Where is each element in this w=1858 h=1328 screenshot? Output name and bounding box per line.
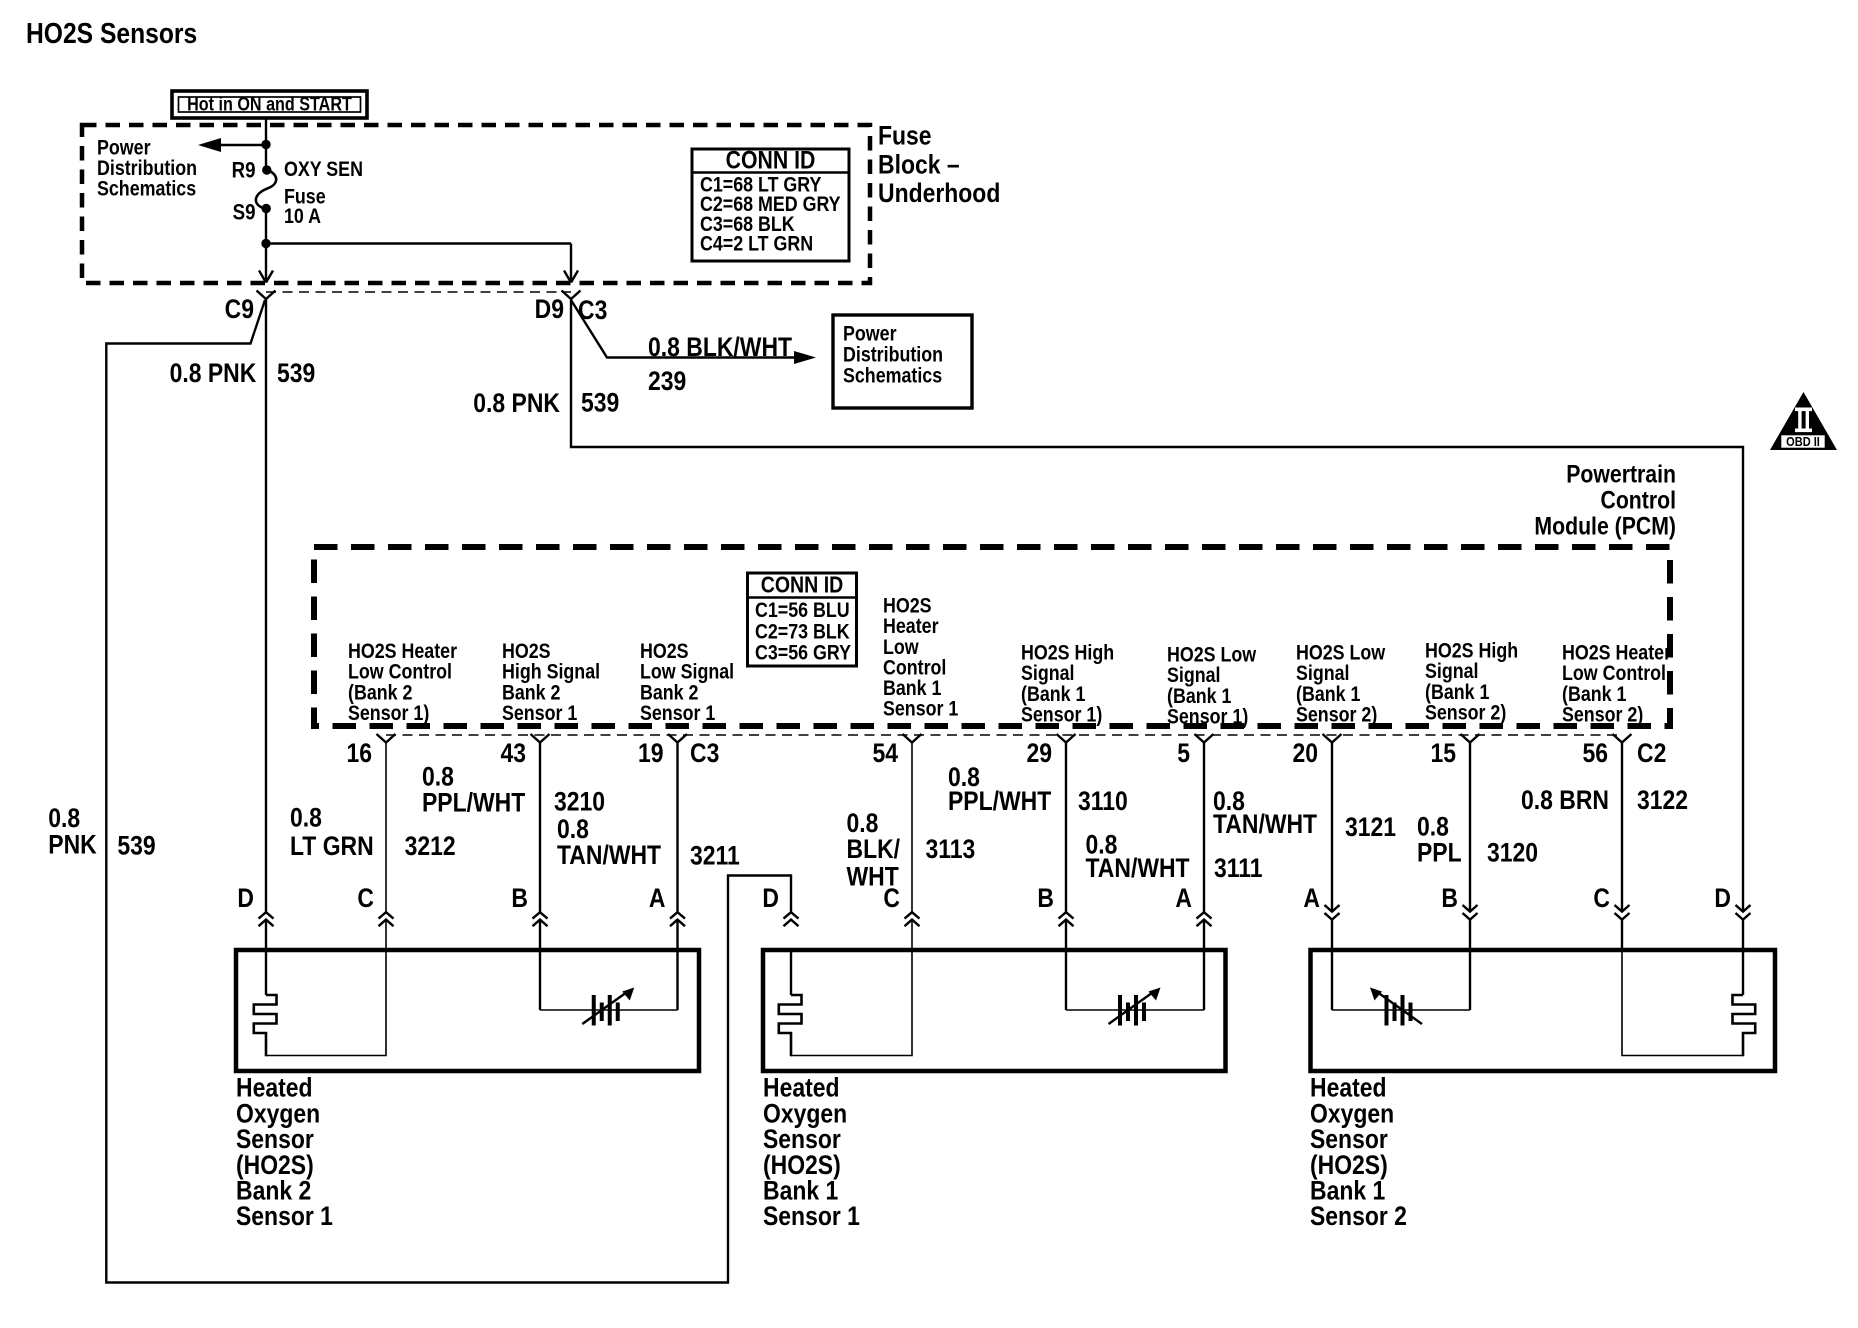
PCM connector dashed line: [386, 734, 1622, 736]
svg-text:539: 539: [581, 388, 619, 418]
wire C9 down to HO2S B2S1 pin D: [265, 299, 267, 912]
HO2S Bank2 Sensor1 box: [236, 950, 699, 1071]
PCM pin 15 connector: [1461, 734, 1480, 743]
svg-text:Schematics: Schematics: [97, 177, 196, 201]
arrow to power distribution schematics: [216, 144, 266, 147]
svg-text:0.8 PNK: 0.8 PNK: [473, 388, 560, 418]
wire PNK 539 from C3 down, right, to HO2S B1S2 pin D: [571, 299, 1743, 912]
svg-text:3211: 3211: [690, 841, 740, 871]
PCM pin 56 connector: [1613, 734, 1632, 743]
wire from pin 29: [1065, 743, 1067, 913]
svg-text:5: 5: [1177, 738, 1190, 768]
connector D9: [562, 291, 581, 300]
PCM pin 19 connector: [668, 734, 687, 743]
wire from pin 16: [385, 743, 387, 913]
wire from pin 56: [1621, 743, 1623, 913]
svg-text:D9: D9: [535, 294, 564, 324]
svg-text:B: B: [1037, 883, 1054, 913]
svg-text:TAN/WHT: TAN/WHT: [1086, 853, 1191, 883]
connector C9: [257, 291, 276, 300]
svg-text:3121: 3121: [1345, 812, 1396, 842]
svg-text:43: 43: [500, 738, 526, 768]
svg-text:R9: R9: [232, 159, 256, 183]
svg-text:0.8 BLK/WHT: 0.8 BLK/WHT: [648, 332, 793, 362]
svg-text:OXY SEN: OXY SEN: [284, 158, 363, 182]
PCM pin 5 connector: [1195, 734, 1214, 743]
svg-text:CONN ID: CONN ID: [726, 146, 816, 174]
svg-text:C3=56 GRY: C3=56 GRY: [755, 641, 851, 665]
svg-text:15: 15: [1430, 738, 1456, 768]
wire D9 slant to power distribution arrow: [571, 300, 800, 358]
svg-text:C9: C9: [225, 294, 254, 324]
svg-text:C1=56 BLU: C1=56 BLU: [755, 599, 850, 623]
svg-text:TAN/WHT: TAN/WHT: [1213, 809, 1318, 839]
svg-text:Control: Control: [1600, 486, 1676, 514]
conn id table (PCM): [748, 573, 857, 666]
svg-text:0.8 PNK: 0.8 PNK: [170, 358, 257, 388]
svg-text:B: B: [1441, 883, 1458, 913]
svg-text:Sensor 2: Sensor 2: [1310, 1201, 1407, 1231]
svg-text:3122: 3122: [1637, 785, 1688, 815]
svg-text:CONN ID: CONN ID: [761, 572, 843, 598]
wire stub down to D9 with arrow: [570, 244, 572, 282]
svg-text:539: 539: [117, 831, 155, 861]
PCM pin 54 connector: [903, 734, 922, 743]
svg-text:D: D: [762, 883, 779, 913]
svg-text:Schematics: Schematics: [843, 364, 942, 388]
svg-text:3210: 3210: [554, 787, 605, 817]
svg-text:54: 54: [872, 738, 898, 768]
svg-text:Sensor 1): Sensor 1): [1167, 705, 1248, 729]
label box: Hot in ON and START: [172, 91, 367, 118]
sensing cell B1S2: [1331, 950, 1333, 1010]
heater element B1S1: [790, 950, 792, 995]
svg-text:TAN/WHT: TAN/WHT: [557, 840, 662, 870]
wire stub down to C9 with arrow: [265, 244, 267, 282]
svg-text:56: 56: [1582, 738, 1608, 768]
node S9: [262, 204, 271, 213]
connector dashed line C9-D9: [266, 291, 571, 293]
inline connectors (chevrons): [259, 912, 274, 918]
svg-text:3212: 3212: [405, 831, 456, 861]
svg-text:B: B: [511, 883, 528, 913]
svg-text:S9: S9: [233, 201, 256, 225]
wire C9 slant to left run, bottom run, and up to B1S1 pin D: [106, 300, 791, 1283]
wire branch to D9: [266, 242, 571, 244]
PCM pin 29 connector: [1057, 734, 1076, 743]
sensing cell B2S1: [539, 950, 541, 1010]
svg-text:A: A: [1175, 883, 1192, 913]
wire from pin 5: [1203, 743, 1205, 913]
power distribution schematics box: [833, 315, 972, 408]
svg-text:Sensor 1: Sensor 1: [763, 1201, 860, 1231]
svg-text:Sensor 1: Sensor 1: [640, 702, 715, 726]
svg-text:Sensor 1): Sensor 1): [348, 702, 429, 726]
svg-text:Powertrain: Powertrain: [1566, 460, 1676, 488]
svg-text:C4=2 LT GRN: C4=2 LT GRN: [700, 232, 813, 256]
PCM pin 43 connector: [531, 734, 550, 743]
svg-text:HO2S Sensors: HO2S Sensors: [26, 17, 197, 49]
svg-text:3113: 3113: [926, 834, 976, 864]
HO2S Bank1 Sensor1 box: [763, 950, 1226, 1071]
PCM pin 20 connector: [1323, 734, 1342, 743]
heater return wire to pin C: [1622, 950, 1743, 1056]
wire below fuse: [265, 209, 267, 244]
svg-text:BLK/: BLK/: [847, 834, 901, 864]
svg-text:A: A: [649, 883, 666, 913]
svg-text:29: 29: [1026, 738, 1052, 768]
svg-text:19: 19: [638, 738, 664, 768]
svg-text:Sensor 1: Sensor 1: [883, 697, 958, 721]
svg-text:PPL/WHT: PPL/WHT: [422, 788, 526, 818]
svg-text:0.8 BRN: 0.8 BRN: [1521, 785, 1609, 815]
svg-text:C3: C3: [690, 738, 719, 768]
svg-text:0.8: 0.8: [290, 803, 322, 833]
svg-text:PNK: PNK: [48, 830, 96, 860]
svg-text:Sensor 1: Sensor 1: [236, 1201, 333, 1231]
heater return wire to pin C (LT GRN): [266, 950, 386, 1056]
svg-text:Sensor 2): Sensor 2): [1296, 703, 1377, 727]
HO2S Bank1 Sensor2 box: [1311, 950, 1776, 1071]
wire from pin 19: [676, 743, 678, 913]
svg-text:Sensor 2): Sensor 2): [1562, 703, 1643, 727]
OBD II symbol: [1770, 392, 1837, 450]
wire from pin 20: [1331, 743, 1333, 913]
svg-text:OBD II: OBD II: [1786, 434, 1820, 449]
svg-text:20: 20: [1292, 738, 1318, 768]
svg-text:3110: 3110: [1078, 786, 1128, 816]
svg-text:C: C: [357, 883, 374, 913]
wire: hot feed down from Hot in ON box: [265, 118, 267, 170]
wire from pin 15: [1469, 743, 1471, 913]
svg-text:Hot in ON and START: Hot in ON and START: [187, 93, 352, 115]
svg-text:Block –: Block –: [878, 150, 960, 180]
svg-text:539: 539: [277, 358, 315, 388]
heater element B2S1: [265, 950, 267, 995]
node R9: [262, 165, 271, 174]
heater return wire to pin C: [791, 950, 912, 1056]
svg-text:C: C: [883, 883, 900, 913]
svg-text:Sensor 1: Sensor 1: [502, 702, 577, 726]
svg-text:LT GRN: LT GRN: [290, 831, 374, 861]
svg-text:C3: C3: [578, 295, 607, 325]
svg-text:PPL/WHT: PPL/WHT: [948, 786, 1052, 816]
PCM dashed box: [314, 547, 1670, 726]
fuse OXY SEN 10A (curve): [256, 170, 276, 209]
junction node to branch: [261, 239, 270, 248]
PCM pin 16 connector: [377, 734, 396, 743]
svg-text:239: 239: [648, 366, 686, 396]
svg-text:3120: 3120: [1487, 838, 1538, 868]
svg-text:Underhood: Underhood: [878, 178, 1000, 208]
fuse block underhood dashed box: [82, 125, 870, 283]
svg-text:Fuse: Fuse: [878, 121, 932, 151]
wire from pin 43: [539, 743, 541, 913]
wire from pin 54: [911, 743, 913, 913]
svg-text:10 A: 10 A: [284, 205, 321, 229]
svg-text:16: 16: [346, 738, 372, 768]
svg-text:D: D: [237, 883, 254, 913]
svg-text:3111: 3111: [1214, 853, 1263, 883]
svg-text:C2: C2: [1637, 738, 1666, 768]
heater element B1S2: [1742, 950, 1744, 995]
svg-text:Module (PCM): Module (PCM): [1534, 512, 1676, 540]
junction node: [261, 140, 270, 149]
svg-text:D: D: [1714, 883, 1731, 913]
svg-text:C: C: [1593, 883, 1610, 913]
conn id table (fuse block): [692, 149, 849, 261]
sensing cell B1S1: [1065, 950, 1067, 1010]
svg-text:A: A: [1303, 883, 1320, 913]
svg-text:PPL: PPL: [1417, 838, 1462, 868]
svg-text:Sensor 1): Sensor 1): [1021, 703, 1102, 727]
svg-text:Sensor 2): Sensor 2): [1425, 701, 1506, 725]
svg-text:C2=73 BLK: C2=73 BLK: [755, 620, 850, 644]
